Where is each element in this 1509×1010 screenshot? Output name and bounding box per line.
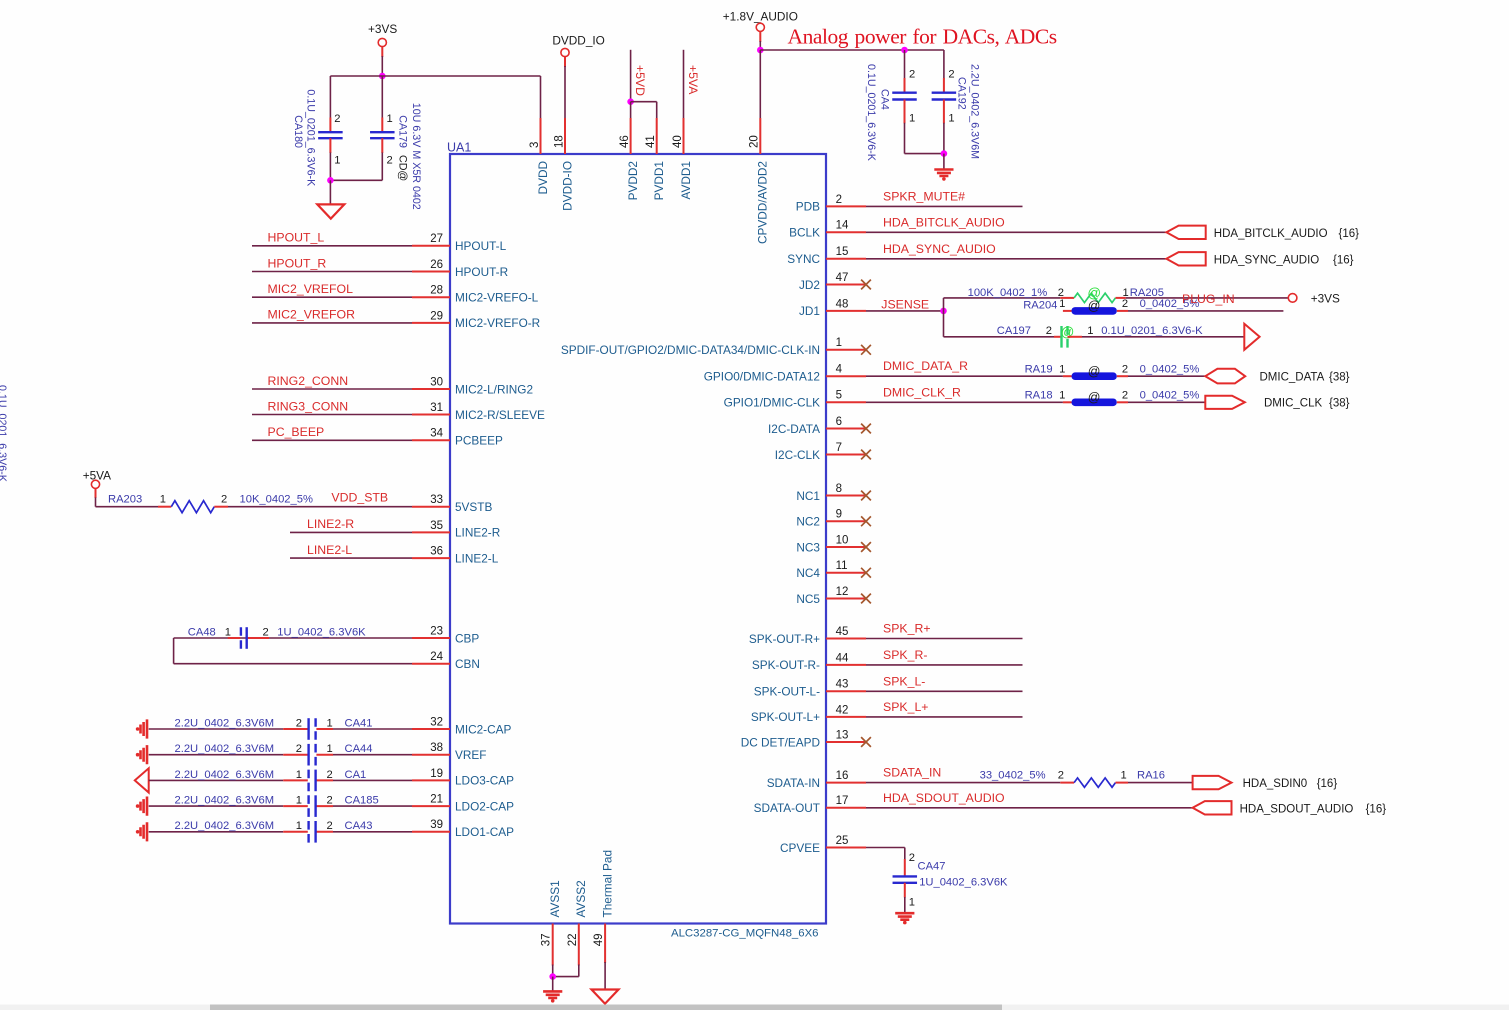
no-connect X pin 1 — [861, 345, 871, 355]
pin 6 I2C-DATA stub — [826, 428, 866, 430]
svg-text:41: 41 — [645, 135, 657, 148]
svg-text:SPK_L-: SPK_L- — [883, 674, 925, 688]
wire pin 4 to RA19 — [866, 375, 1063, 377]
svg-text:CA192: CA192 — [956, 77, 968, 110]
svg-text:SPK_R+: SPK_R+ — [883, 622, 931, 636]
resistor RA18 0_0402_5% (zero ohm bar) — [1072, 399, 1117, 407]
wire SPK_R+ — [866, 638, 1023, 640]
wire RA203 to pin 33 — [214, 506, 228, 508]
svg-text:HPOUT_L: HPOUT_L — [268, 231, 325, 245]
pin 5 GPIO1/DMIC-CLK stub — [826, 401, 866, 403]
svg-text:1: 1 — [948, 113, 954, 125]
pin 44 SPK-OUT-R- stub — [826, 664, 866, 666]
wire pin 17 — [866, 807, 1193, 809]
svg-text:HDA_SDOUT_AUDIO: HDA_SDOUT_AUDIO — [883, 791, 1005, 805]
wire junction vertical — [943, 298, 945, 337]
no-connect X pin 8 — [861, 491, 871, 501]
svg-text:MIC2-L/RING2: MIC2-L/RING2 — [455, 382, 533, 396]
pin 41 PVDD1 stub — [656, 118, 658, 154]
junction JSENSE — [940, 308, 947, 315]
capacitor CA48 1U_0402_6.3V6K — [240, 627, 242, 649]
svg-text:{16}: {16} — [1317, 778, 1338, 790]
pin 29 MIC2-VREFO-R wire — [252, 322, 412, 324]
svg-text:1: 1 — [334, 155, 340, 167]
svg-text:I2C-DATA: I2C-DATA — [768, 422, 820, 436]
pin 42 SPK-OUT-L+ stub — [826, 716, 866, 718]
capacitor CA197 0.1U_0201_6.3V6-K (green) — [1060, 326, 1062, 348]
svg-text:AVSS1: AVSS1 — [548, 880, 562, 917]
svg-text:CA44: CA44 — [345, 743, 373, 755]
svg-text:2: 2 — [334, 113, 340, 125]
pin 25 CPVEE stub — [826, 847, 866, 849]
pin 1 SPDIF-OUT/GPIO2/DMIC-DATA34/DMIC-CLK-IN stub — [826, 349, 866, 351]
svg-text:RING2_CONN: RING2_CONN — [268, 374, 349, 388]
ground (analog) left of CA185 — [141, 797, 148, 816]
pin 23 CBP wire — [228, 637, 247, 639]
svg-text:8: 8 — [836, 483, 842, 495]
svg-text:1: 1 — [1059, 298, 1065, 310]
wire CA185 row — [149, 805, 284, 807]
capacitor CA4 0.1U_0201_6.3V6-K — [904, 50, 906, 79]
no-connect X pin 12 — [861, 594, 871, 604]
svg-text:2.2U_0402_6.3V6M: 2.2U_0402_6.3V6M — [175, 769, 275, 781]
power net +5VA wire — [683, 50, 685, 118]
wire pin 5 to RA18 — [866, 401, 1063, 403]
no-connect X pin 10 — [861, 542, 871, 552]
pin 10 NC3 stub — [826, 546, 866, 548]
svg-text:10U 6.3V M X5R 0402: 10U 6.3V M X5R 0402 — [410, 103, 422, 210]
svg-text:29: 29 — [430, 310, 443, 322]
svg-text:+5VD: +5VD — [633, 65, 647, 96]
svg-text:46: 46 — [619, 135, 631, 148]
pin 20 CPVDD/AVDD2 stub — [759, 118, 761, 154]
pin 9 NC2 stub — [826, 520, 866, 522]
svg-text:RA19: RA19 — [1025, 363, 1053, 375]
svg-text:27: 27 — [430, 233, 443, 245]
scrollbar track — [0, 1005, 1509, 1010]
svg-text:{16}: {16} — [1339, 228, 1360, 240]
svg-text:2: 2 — [948, 69, 954, 81]
capacitor CA44 2.2U_0402_6.3V6M — [307, 744, 309, 766]
svg-text:21: 21 — [430, 794, 443, 806]
svg-text:NC5: NC5 — [796, 592, 820, 606]
svg-text:ALC3287-CG_MQFN48_6X6: ALC3287-CG_MQFN48_6X6 — [671, 928, 819, 940]
ground triangle below Thermal Pad — [592, 990, 619, 1004]
svg-text:NC1: NC1 — [796, 489, 820, 503]
wire SPK_L- — [866, 690, 1023, 692]
no-connect X pin 9 — [861, 516, 871, 526]
svg-text:5VSTB: 5VSTB — [455, 500, 493, 514]
svg-text:2: 2 — [327, 769, 333, 781]
pin 37 AVSS1 stub — [552, 924, 554, 966]
svg-text:2: 2 — [221, 494, 227, 506]
svg-text:40: 40 — [672, 135, 684, 148]
svg-text:PVDD2: PVDD2 — [626, 161, 640, 200]
wire to ground — [943, 154, 945, 169]
svg-text:CA41: CA41 — [345, 717, 373, 729]
svg-text:HDA_BITCLK_AUDIO: HDA_BITCLK_AUDIO — [1214, 228, 1328, 240]
svg-text:NC3: NC3 — [796, 540, 820, 554]
svg-text:32: 32 — [430, 716, 443, 728]
pin 16 SDATA-IN stub — [826, 782, 866, 784]
svg-text:15: 15 — [836, 246, 849, 258]
svg-text:RING3_CONN: RING3_CONN — [268, 399, 349, 413]
svg-text:CBP: CBP — [455, 631, 479, 645]
ground triangle below CA180 — [317, 204, 344, 218]
svg-text:7: 7 — [836, 442, 842, 454]
wire to ground triangle — [329, 180, 331, 204]
svg-text:1: 1 — [296, 795, 302, 807]
svg-text:@: @ — [1088, 299, 1101, 313]
svg-text:1: 1 — [909, 897, 915, 909]
svg-text:GPIO0/DMIC-DATA12: GPIO0/DMIC-DATA12 — [704, 370, 820, 384]
wire to RA204 — [1063, 310, 1072, 312]
svg-text:2.2U_0402_6.3V6M: 2.2U_0402_6.3V6M — [175, 717, 275, 729]
pin 18 DVDD-IO stub — [564, 118, 566, 154]
svg-text:+5VA: +5VA — [686, 65, 700, 95]
svg-text:2: 2 — [1122, 298, 1128, 310]
open triangle terminal right — [1244, 324, 1259, 350]
resistor RA16 33_0402_5% — [1074, 778, 1115, 787]
svg-text:48: 48 — [836, 298, 849, 310]
wire SPK_R- — [866, 664, 1023, 666]
pin 28 MIC2-VREFO-L wire — [252, 296, 412, 298]
svg-text:1: 1 — [387, 113, 393, 125]
svg-text:10K_0402_5%: 10K_0402_5% — [240, 494, 313, 506]
svg-text:2: 2 — [1122, 363, 1128, 375]
ground below CA47 — [895, 913, 914, 920]
pin 27 HPOUT-L wire — [252, 245, 412, 247]
svg-text:2.2U_0402_6.3V6M: 2.2U_0402_6.3V6M — [175, 820, 275, 832]
svg-text:14: 14 — [836, 220, 849, 232]
offpage connector HDA_SYNC_AUDIO — [1166, 252, 1205, 265]
svg-text:RA18: RA18 — [1025, 389, 1053, 401]
wire top rail to pin 3 DVDD — [330, 75, 540, 77]
svg-text:LDO1-CAP: LDO1-CAP — [455, 825, 514, 839]
svg-text:LINE2-R: LINE2-R — [455, 526, 500, 540]
svg-text:24: 24 — [430, 651, 443, 663]
power net +5VD wire — [630, 50, 632, 102]
svg-text:2: 2 — [1046, 325, 1052, 337]
svg-text:2: 2 — [909, 852, 915, 864]
svg-text:HDA_SDOUT_AUDIO: HDA_SDOUT_AUDIO — [1240, 803, 1354, 815]
no-connect X pin 7 — [861, 450, 871, 460]
offpage connector HDA_SDIN0 — [1193, 776, 1232, 789]
svg-text:AVDD1: AVDD1 — [679, 161, 693, 199]
svg-text:{16}: {16} — [1366, 803, 1387, 815]
svg-text:1: 1 — [327, 717, 333, 729]
svg-text:{38}: {38} — [1329, 372, 1350, 384]
svg-text:DVDD_IO: DVDD_IO — [552, 33, 604, 47]
svg-text:45: 45 — [836, 626, 849, 638]
svg-text:CA47: CA47 — [918, 861, 946, 873]
svg-text:+1.8V_AUDIO: +1.8V_AUDIO — [723, 10, 798, 24]
svg-text:JD2: JD2 — [799, 278, 820, 292]
svg-text:VREF: VREF — [455, 748, 486, 762]
svg-text:2: 2 — [387, 155, 393, 167]
wire CA41 row — [149, 728, 284, 730]
svg-text:AVSS2: AVSS2 — [574, 880, 588, 917]
junction CA192 ground — [941, 150, 948, 157]
capacitor CA179 10U 6.3V M X5R 0402 — [381, 76, 383, 118]
pin 49 Thermal Pad stub — [604, 924, 606, 964]
svg-text:+3VS: +3VS — [368, 22, 397, 36]
wire AVSS to ground — [552, 977, 554, 991]
svg-text:10: 10 — [836, 534, 849, 546]
svg-text:SYNC: SYNC — [787, 252, 820, 266]
wire to RA205 — [944, 297, 1061, 299]
svg-text:11: 11 — [836, 560, 848, 572]
svg-text:CA4: CA4 — [879, 89, 891, 110]
svg-text:1: 1 — [1059, 389, 1065, 401]
svg-text:{38}: {38} — [1329, 398, 1350, 410]
pin 47 JD2 stub — [826, 284, 866, 286]
no-connect X pin 47 — [861, 280, 871, 290]
IC U A1 ALC3287 codec body outline — [450, 154, 826, 924]
wire CA1 row — [149, 779, 284, 781]
pin 46 PVDD2 stub — [630, 118, 632, 154]
ground (analog) left of CA43 — [141, 822, 148, 841]
svg-text:20: 20 — [749, 135, 761, 148]
svg-text:SPK-OUT-L+: SPK-OUT-L+ — [751, 710, 820, 724]
svg-text:34: 34 — [430, 428, 443, 440]
svg-text:PVDD1: PVDD1 — [652, 161, 666, 200]
svg-text:DMIC_DATA: DMIC_DATA — [1260, 372, 1325, 384]
svg-text:47: 47 — [836, 272, 849, 284]
pin 30 MIC2-L/RING2 wire — [252, 388, 412, 390]
svg-text:0.1U_0201_6.3V6-K: 0.1U_0201_6.3V6-K — [0, 385, 8, 483]
junction caps to ground — [327, 177, 334, 184]
svg-text:{16}: {16} — [1333, 254, 1354, 266]
svg-text:25: 25 — [836, 835, 849, 847]
svg-text:9: 9 — [836, 509, 842, 521]
pin 12 NC5 stub — [826, 598, 866, 600]
ground (analog) left of CA44 — [141, 745, 148, 764]
offpage connector DMIC_CLK pentagon — [1205, 396, 1245, 409]
svg-text:1: 1 — [1087, 325, 1093, 337]
pin 36 LINE2-L wire — [290, 557, 412, 559]
wire RA205 to +3VS — [1116, 297, 1126, 299]
svg-text:CA185: CA185 — [345, 795, 379, 807]
svg-text:Analog power for DACs, ADCs: Analog power for DACs, ADCs — [788, 25, 1057, 49]
svg-text:DVDD: DVDD — [536, 161, 550, 194]
resistor RA205 100K_0402_1% — [1074, 293, 1115, 302]
svg-text:LINE2-L: LINE2-L — [307, 543, 352, 557]
svg-text:23: 23 — [430, 625, 443, 637]
svg-text:1U_0402_6.3V6K: 1U_0402_6.3V6K — [277, 626, 366, 638]
svg-text:3: 3 — [529, 142, 541, 148]
wire pin 46 up — [630, 102, 632, 118]
wire CA197 right — [1068, 336, 1083, 338]
junction AVSS — [549, 973, 556, 980]
svg-text:0_0402_5%: 0_0402_5% — [1140, 389, 1200, 401]
svg-text:CPVEE: CPVEE — [780, 841, 820, 855]
svg-text:12: 12 — [836, 586, 849, 598]
wire AVSS2 to AVSS1 — [553, 976, 579, 978]
power symbol +3VS right — [1288, 294, 1297, 303]
wire +3VS down — [381, 47, 383, 57]
offpage connector HDA_BITCLK_AUDIO — [1166, 226, 1205, 239]
svg-text:MIC2_VREFOL: MIC2_VREFOL — [268, 282, 354, 296]
pin 4 GPIO0/DMIC-DATA12 stub — [826, 375, 866, 377]
svg-text:SPDIF-OUT/GPIO2/DMIC-DATA34/DM: SPDIF-OUT/GPIO2/DMIC-DATA34/DMIC-CLK-IN — [561, 343, 820, 357]
wire CA43 row — [149, 831, 284, 833]
svg-text:22: 22 — [567, 934, 579, 947]
svg-text:1: 1 — [327, 743, 333, 755]
svg-text:CPVDD/AVDD2: CPVDD/AVDD2 — [756, 161, 770, 244]
junction +1.8V at pin 20 — [757, 47, 764, 54]
wire +5VA down — [95, 489, 97, 498]
svg-text:0_0402_5%: 0_0402_5% — [1140, 363, 1200, 375]
svg-text:LDO2-CAP: LDO2-CAP — [455, 799, 514, 813]
svg-text:2: 2 — [296, 743, 302, 755]
open triangle terminal left of CA1 — [135, 768, 149, 792]
capacitor CA47 1U_0402_6.3V6K — [893, 875, 918, 877]
svg-text:RA204: RA204 — [1023, 300, 1057, 312]
wire CA4 bottom to junction — [905, 153, 944, 155]
svg-text:HPOUT-R: HPOUT-R — [455, 265, 508, 279]
svg-text:1: 1 — [296, 769, 302, 781]
svg-text:DMIC_DATA_R: DMIC_DATA_R — [883, 359, 968, 373]
capacitor CA1 2.2U_0402_6.3V6M — [307, 770, 309, 792]
svg-text:DC DET/EAPD: DC DET/EAPD — [741, 735, 820, 749]
svg-text:PC_BEEP: PC_BEEP — [268, 425, 325, 439]
svg-text:SDATA_IN: SDATA_IN — [883, 766, 941, 780]
capacitor CA185 2.2U_0402_6.3V6M — [307, 795, 309, 817]
wire RA18 to connector — [1117, 401, 1128, 403]
pin 35 LINE2-R wire — [290, 531, 412, 533]
capacitor CA192 2.2U_0402_6.3V6M — [943, 50, 945, 79]
pin 24 CBN wire — [174, 663, 412, 665]
no-connect X pin 11 — [861, 568, 871, 578]
svg-text:2: 2 — [296, 717, 302, 729]
svg-text:2.2U_0402_6.3V6M: 2.2U_0402_6.3V6M — [175, 795, 275, 807]
svg-text:13: 13 — [836, 729, 849, 741]
svg-text:18: 18 — [553, 135, 565, 148]
pin 34 PCBEEP wire — [252, 439, 412, 441]
svg-text:33_0402_5%: 33_0402_5% — [980, 770, 1046, 782]
svg-text:26: 26 — [430, 259, 443, 271]
pin 26 HPOUT-R wire — [252, 271, 412, 273]
svg-text:1: 1 — [225, 626, 231, 638]
svg-text:33: 33 — [430, 494, 443, 506]
wire to CA197 — [944, 336, 1055, 338]
svg-text:2: 2 — [909, 69, 915, 81]
svg-text:SDATA-IN: SDATA-IN — [767, 776, 820, 790]
capacitor CA180 0.1U_0201_6.3V6-K — [329, 76, 331, 118]
svg-text:36: 36 — [430, 546, 443, 558]
svg-text:5: 5 — [836, 390, 842, 402]
svg-text:4: 4 — [836, 364, 843, 376]
offpage connector DMIC_DATA hexagon — [1205, 369, 1245, 384]
svg-text:CA197: CA197 — [997, 325, 1031, 337]
svg-text:35: 35 — [430, 520, 443, 532]
svg-text:JSENSE: JSENSE — [881, 298, 929, 312]
pin 8 NC1 stub — [826, 495, 866, 497]
svg-text:SDATA-OUT: SDATA-OUT — [754, 801, 820, 815]
svg-text:SPK-OUT-R+: SPK-OUT-R+ — [749, 632, 820, 646]
svg-text:JD1: JD1 — [799, 304, 820, 318]
pin 13 DC DET/EAPD stub — [826, 741, 866, 743]
offpage connector HDA_SDOUT_AUDIO — [1193, 801, 1232, 814]
wire +1.8V down — [759, 32, 761, 42]
svg-text:Thermal Pad: Thermal Pad — [600, 850, 614, 918]
svg-text:49: 49 — [593, 934, 605, 947]
svg-text:1: 1 — [296, 820, 302, 832]
svg-text:HPOUT-L: HPOUT-L — [455, 239, 507, 253]
pin 15 SYNC stub — [826, 258, 866, 260]
svg-text:43: 43 — [836, 679, 849, 691]
svg-text:0.1U_0201_6.3V6-K: 0.1U_0201_6.3V6-K — [1101, 325, 1203, 337]
svg-text:GPIO1/DMIC-CLK: GPIO1/DMIC-CLK — [724, 396, 820, 410]
svg-text:SPK-OUT-R-: SPK-OUT-R- — [752, 658, 820, 672]
pin 3 DVDD stub — [540, 118, 542, 154]
svg-text:RA16: RA16 — [1137, 770, 1165, 782]
wire JD1 to junction — [866, 310, 944, 312]
ground below CA192 — [934, 170, 953, 177]
capacitor CA41 2.2U_0402_6.3V6M — [307, 718, 309, 740]
svg-text:44: 44 — [836, 652, 849, 664]
svg-text:CD@: CD@ — [396, 155, 408, 181]
svg-text:CA48: CA48 — [188, 626, 216, 638]
svg-text:31: 31 — [430, 402, 443, 414]
svg-text:28: 28 — [430, 285, 443, 297]
resistor RA203 10K_0402_5% — [171, 501, 214, 513]
wire CA180/CA179 bottoms — [330, 179, 382, 181]
svg-text:NC2: NC2 — [796, 515, 820, 529]
pin 22 AVSS2 stub — [578, 924, 580, 966]
svg-text:CA180: CA180 — [292, 115, 304, 148]
svg-text:1: 1 — [160, 494, 166, 506]
svg-text:PCBEEP: PCBEEP — [455, 434, 503, 448]
svg-text:LDO3-CAP: LDO3-CAP — [455, 774, 514, 788]
svg-text:RA203: RA203 — [108, 494, 142, 506]
svg-text:SPK_L+: SPK_L+ — [883, 700, 928, 714]
svg-text:100K_0402_1%: 100K_0402_1% — [968, 287, 1048, 299]
scrollbar thumb — [210, 1005, 1002, 1010]
svg-text:0.1U_0201_6.3V6-K: 0.1U_0201_6.3V6-K — [865, 64, 877, 162]
pin 31 MIC2-R/SLEEVE wire — [252, 414, 412, 416]
svg-text:1: 1 — [1121, 770, 1127, 782]
svg-text:42: 42 — [836, 704, 849, 716]
resistor RA204 0_0402_5% (zero ohm bar) — [1072, 307, 1117, 315]
svg-text:PDB: PDB — [796, 200, 820, 214]
svg-text:HPOUT_R: HPOUT_R — [268, 256, 327, 270]
pin 2 PDB stub — [826, 205, 866, 207]
no-connect X pin 6 — [861, 424, 871, 434]
wire RA204 right — [1117, 310, 1128, 312]
svg-text:2: 2 — [836, 194, 842, 206]
svg-text:1: 1 — [836, 337, 842, 349]
pin 40 AVDD1 stub — [683, 118, 685, 154]
svg-text:MIC2_VREFOR: MIC2_VREFOR — [268, 308, 356, 322]
svg-text:MIC2-VREFO-R: MIC2-VREFO-R — [455, 316, 540, 330]
svg-text:2: 2 — [327, 795, 333, 807]
wire CPVEE to CA47 — [866, 847, 905, 849]
svg-text:SPK_R-: SPK_R- — [883, 648, 927, 662]
svg-text:19: 19 — [430, 768, 443, 780]
wire SYNC — [866, 258, 1166, 260]
wire CBP loop vertical — [173, 638, 175, 664]
wire to RA203 — [96, 506, 159, 508]
svg-text:30: 30 — [430, 376, 443, 388]
wire pin 20 up — [759, 50, 761, 118]
svg-text:UA1: UA1 — [447, 141, 471, 155]
svg-text:16: 16 — [836, 770, 849, 782]
pin 48 JD1 stub — [826, 310, 866, 312]
svg-text:CA179: CA179 — [396, 115, 408, 148]
ground (analog) left of CA41 — [141, 719, 148, 738]
